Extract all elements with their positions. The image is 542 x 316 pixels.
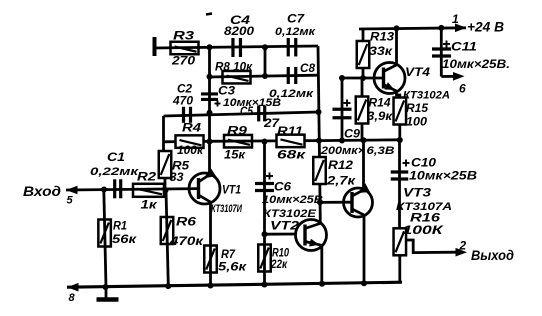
svg-text:3,9к: 3,9к — [367, 109, 393, 123]
node C2-C3 — [207, 110, 213, 116]
svg-text:R11: R11 — [277, 124, 303, 138]
wire VT4 base lead — [363, 77, 384, 80]
svg-text:R2: R2 — [137, 170, 156, 184]
node VT4 collector rail — [394, 25, 400, 31]
resistor R5 — [159, 151, 190, 184]
terminal output arrow pin 2 — [456, 239, 515, 264]
node rail R1 — [103, 284, 109, 290]
wire VT3 emitter up — [362, 140, 365, 191]
svg-text:1: 1 — [452, 12, 459, 26]
node input-R1 — [101, 187, 107, 193]
svg-text:R6: R6 — [176, 215, 196, 229]
svg-text:КТ3107А: КТ3107А — [396, 201, 452, 213]
node R4-R9 — [207, 139, 213, 145]
svg-text:5,6к: 5,6к — [218, 259, 247, 273]
resistor R16 — [394, 211, 445, 256]
capacitor C3 polarized — [201, 84, 281, 109]
svg-text:КТ3102Е: КТ3102Е — [263, 208, 317, 220]
node R12-VT3 base — [317, 199, 323, 205]
svg-text:С1: С1 — [107, 150, 125, 164]
transistor VT2 — [263, 208, 327, 251]
svg-text:22к: 22к — [270, 257, 288, 271]
svg-text:VT3: VT3 — [403, 186, 431, 200]
wire R12 bottom to VT2 collector — [318, 184, 321, 224]
resistor R10 — [258, 245, 289, 272]
wire R13 top lead — [362, 29, 365, 41]
wire R1 branch — [104, 189, 106, 287]
svg-text:270: 270 — [171, 54, 196, 68]
node R9-C6 — [262, 139, 268, 145]
svg-text:10мк×25В: 10мк×25В — [409, 170, 477, 182]
wire R5 bottom to input line — [164, 178, 167, 190]
wire output tap — [407, 240, 457, 253]
stray mark — [206, 14, 212, 15]
svg-text:6: 6 — [459, 82, 466, 96]
node C5 right — [316, 109, 322, 115]
wire VT2 emitter down — [320, 247, 323, 284]
resistor R11 — [277, 124, 307, 161]
terminal +24V arrow pin 1 — [452, 12, 504, 35]
transistor VT1 — [189, 168, 243, 215]
node rail VT3 collector — [361, 280, 367, 286]
capacitor C8 — [269, 61, 315, 100]
node R11-right — [316, 138, 322, 144]
svg-text:0,22мк: 0,22мк — [90, 166, 140, 178]
wire left vertical C2 bend — [162, 116, 165, 151]
node C9 top — [339, 75, 345, 81]
resistor R8 — [215, 60, 253, 84]
wire C6-R10 branch — [263, 142, 266, 285]
wire R16 bottom lead — [398, 256, 401, 283]
svg-text:68к: 68к — [277, 147, 306, 161]
node R8 left — [207, 74, 213, 80]
svg-text:VT4: VT4 — [405, 65, 430, 79]
svg-text:10мк×25В.: 10мк×25В. — [442, 59, 510, 71]
svg-text:КТ3107И: КТ3107И — [211, 203, 243, 215]
resistor R13 — [357, 30, 395, 69]
svg-text:56к: 56к — [112, 232, 137, 246]
node rail VT2 emitter — [319, 281, 325, 287]
wire ground rail — [67, 282, 402, 287]
svg-text:200мк×: 200мк× — [320, 145, 366, 157]
svg-text:R3: R3 — [173, 29, 194, 43]
svg-text:С10: С10 — [411, 156, 436, 170]
svg-text:Вход: Вход — [23, 184, 61, 199]
wire R14 top lead — [361, 78, 364, 97]
svg-text:10мк×15В: 10мк×15В — [223, 97, 281, 109]
svg-text:R9: R9 — [227, 124, 247, 138]
svg-text:R1: R1 — [113, 219, 127, 233]
capacitor C6 polarized — [255, 173, 323, 206]
wire VT4 collector up — [395, 28, 398, 64]
terminal input arrow pin 5 — [23, 184, 78, 207]
svg-text:R15: R15 — [406, 101, 428, 115]
svg-text:470к: 470к — [169, 234, 204, 248]
resistor R15 — [394, 98, 429, 129]
wire upper vertical C3 branch — [208, 47, 211, 174]
resistor R2 — [133, 170, 164, 212]
wire VT4 emitter to R15 — [397, 92, 400, 98]
svg-text:2: 2 — [459, 239, 467, 253]
wire VT1 collector down — [209, 203, 212, 286]
svg-text:10мк×25В: 10мк×25В — [262, 194, 323, 206]
svg-text:+24 В: +24 В — [467, 20, 504, 35]
wire top R3-C4-C7 line — [154, 46, 318, 48]
svg-text:100: 100 — [406, 114, 427, 128]
svg-text:6,3В: 6,3В — [367, 145, 395, 157]
svg-text:С7: С7 — [287, 12, 305, 26]
wire 6.3V line to right — [319, 138, 400, 142]
svg-text:VT2: VT2 — [270, 219, 299, 233]
svg-text:КТ3102А: КТ3102А — [403, 90, 450, 102]
node R15 bottom — [397, 137, 403, 143]
wire R8-C8 line — [209, 75, 318, 77]
svg-text:R8 10к: R8 10к — [215, 60, 253, 74]
svg-text:0,12мк: 0,12мк — [275, 26, 317, 38]
node C9 bottom — [339, 138, 345, 144]
wire C9 top horizontal — [342, 77, 363, 80]
transistor VT4 — [374, 63, 450, 102]
svg-text:470: 470 — [172, 93, 193, 107]
node C4-C7 — [262, 44, 268, 50]
svg-text:27: 27 — [263, 116, 281, 130]
svg-text:8200: 8200 — [224, 24, 254, 38]
svg-text:1к: 1к — [141, 198, 158, 212]
svg-text:С11: С11 — [451, 40, 477, 54]
svg-text:С9: С9 — [344, 127, 360, 141]
capacitor C9 polarized — [320, 100, 395, 157]
wire R6 branch — [166, 190, 168, 286]
resistor R4 — [176, 121, 204, 157]
resistor R6 — [161, 215, 204, 248]
svg-text:VT1: VT1 — [222, 183, 241, 197]
svg-text:15к: 15к — [224, 147, 246, 161]
node VT3 emitter top — [361, 137, 367, 143]
terminal stub left — [153, 37, 157, 56]
node R3-C4 top — [207, 44, 213, 50]
node VT2 base tap — [262, 231, 268, 237]
wire ladder vertical C4 right — [264, 47, 267, 76]
svg-text:С8: С8 — [300, 61, 315, 75]
wire +24V rail — [359, 28, 466, 29]
wire input line — [66, 189, 199, 190]
wire VT3 collector down — [363, 214, 366, 284]
wire R13 bottom lead — [362, 68, 365, 78]
capacitor C1 — [90, 150, 140, 198]
svg-text:R13: R13 — [370, 30, 394, 44]
capacitor C5 — [240, 104, 280, 130]
node rail R7 — [208, 283, 214, 289]
node rail R10 — [262, 282, 268, 288]
resistor R1 — [98, 219, 137, 247]
resistor R14 — [356, 96, 393, 124]
wire VT2 base lead — [265, 233, 297, 236]
node R13 bottom — [360, 75, 366, 81]
svg-text:Выход: Выход — [471, 248, 514, 263]
svg-text:100к: 100к — [177, 143, 204, 157]
capacitor C4 — [224, 13, 254, 57]
wire resistor row R4-R9-R11 line — [203, 139, 277, 142]
wire main right vertical x318 — [318, 46, 320, 158]
svg-text:33к: 33к — [369, 44, 393, 58]
capacitor C7 — [275, 12, 317, 57]
wire R15 bottom lead — [398, 125, 401, 140]
svg-text:5: 5 — [67, 195, 74, 207]
capacitor C11 polarized — [432, 40, 510, 72]
resistor R7 — [204, 246, 247, 274]
terminal pin 8 arrow — [67, 283, 79, 304]
wire R4 left lead — [164, 140, 177, 143]
wire R11 right lead — [304, 139, 319, 142]
wire C9 branch vertical — [341, 78, 344, 141]
svg-text:С3: С3 — [218, 84, 235, 98]
ground — [97, 287, 119, 300]
node R8-C8 — [262, 73, 268, 79]
resistor R3 — [171, 29, 199, 68]
wire C11 branch vertical — [440, 28, 443, 77]
svg-text:33: 33 — [170, 170, 184, 184]
resistor R12 — [313, 157, 356, 188]
wire R14 bottom lead — [361, 124, 364, 141]
wire VT3 base lead — [320, 201, 352, 204]
resistor R9 — [224, 124, 252, 162]
svg-text:8: 8 — [69, 292, 76, 304]
svg-text:R12: R12 — [328, 158, 353, 172]
wire C2-C5 line — [164, 112, 319, 116]
svg-text:2,7к: 2,7к — [326, 174, 356, 188]
transistor VT3 — [344, 183, 453, 217]
node rail R6 — [165, 283, 171, 289]
terminal pin 6 arrow — [441, 72, 466, 96]
svg-text:С6: С6 — [274, 180, 291, 194]
wire C10 branch vertical — [398, 140, 401, 228]
node C11 rail — [438, 25, 444, 31]
svg-text:100К: 100К — [403, 223, 445, 237]
node R2-R5 — [163, 187, 169, 193]
svg-text:R14: R14 — [369, 96, 391, 110]
capacitor C10 polarized — [391, 156, 477, 183]
capacitor C2 — [172, 82, 193, 123]
